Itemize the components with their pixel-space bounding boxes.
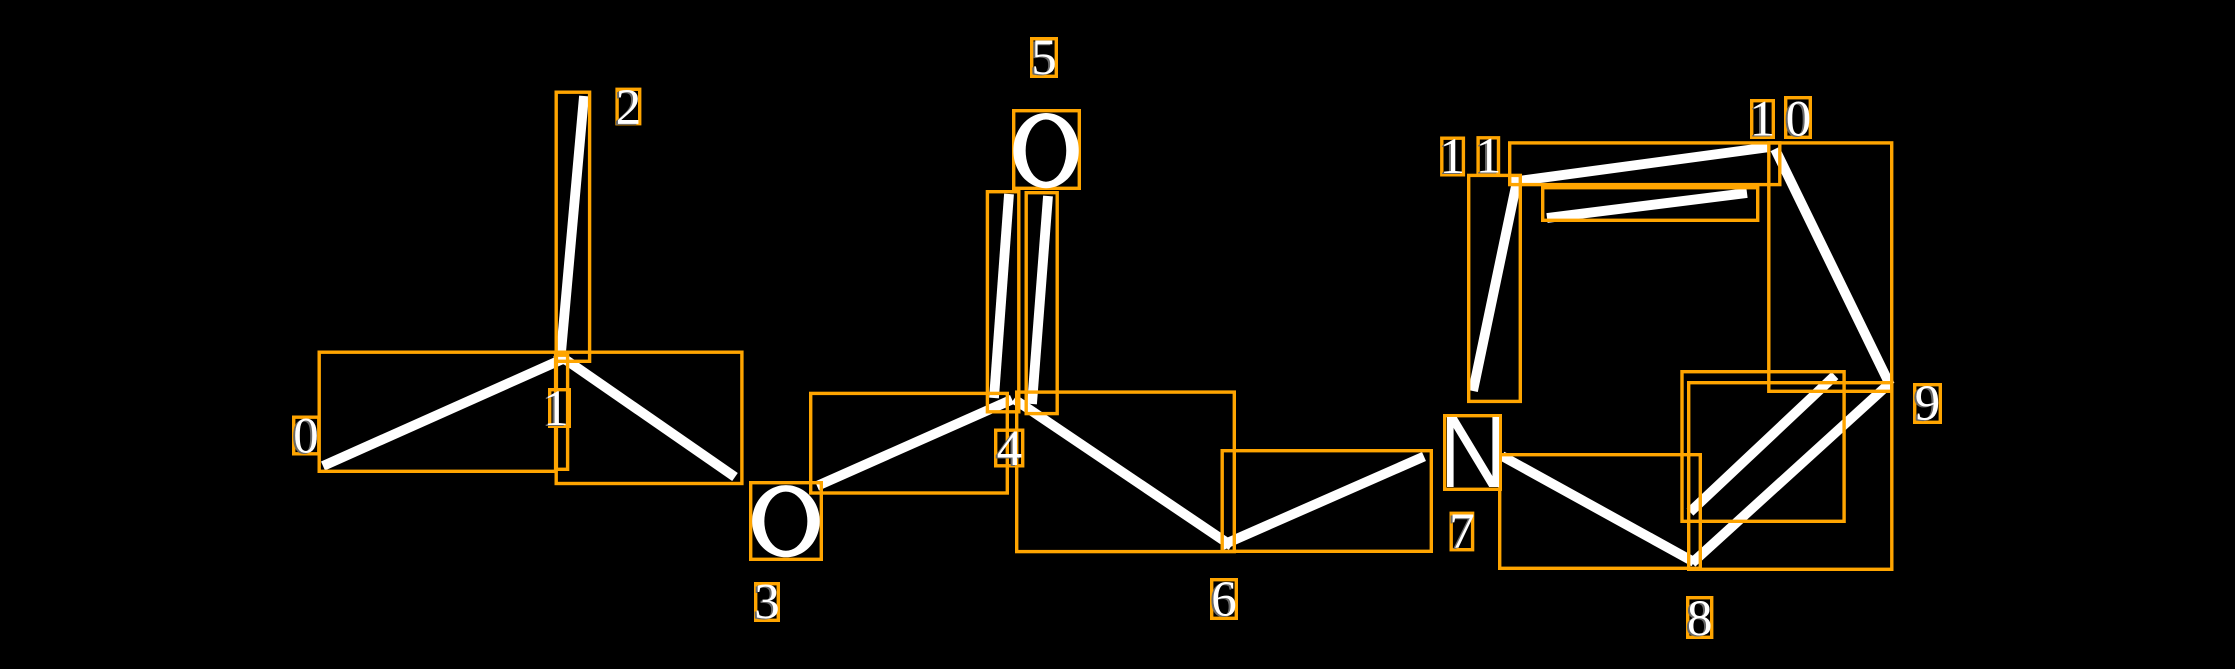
ring bond C4=C5 inner <box>1690 376 1835 513</box>
ring bond C2=C3 inner <box>1547 193 1747 218</box>
bond C-CH3 lower-left (bond 0) <box>323 358 565 466</box>
box O carbonyl letter <box>1014 111 1080 189</box>
box bond C5-N <box>1500 455 1701 569</box>
ring bond C5-N <box>1502 456 1694 562</box>
label 8 <box>1687 591 1713 647</box>
svg-text:1: 1 <box>543 381 569 437</box>
svg-text:1: 1 <box>1750 91 1776 147</box>
svg-text:2: 2 <box>616 80 642 136</box>
box bond 9 <box>1769 143 1892 391</box>
atom N <box>1447 417 1499 487</box>
svg-text:0: 0 <box>1786 91 1812 147</box>
svg-text:0: 0 <box>293 409 319 465</box>
box bond 0 <box>319 352 555 471</box>
box bond 10 main <box>1510 143 1780 185</box>
svg-text:6: 6 <box>1211 572 1237 628</box>
box C=O right <box>1026 193 1057 414</box>
bond O-C carbonyl <box>817 400 1012 487</box>
bond C=O right line <box>1032 196 1048 404</box>
svg-text:3: 3 <box>754 575 780 631</box>
label 11 digit 1 b <box>1476 128 1502 184</box>
bond C=O left line <box>994 194 1009 398</box>
ring bond N-C2 (bond 11) <box>1473 181 1517 391</box>
label 1 <box>543 381 569 437</box>
label 7 <box>1449 504 1475 560</box>
bond C-O ester <box>556 353 735 477</box>
box C=O left <box>987 192 1018 412</box>
box bond O-C <box>811 393 1008 493</box>
box bond 11 <box>1469 175 1521 401</box>
ring bond C2=C3 main (bond 10) <box>1511 147 1770 182</box>
label 0 <box>293 409 319 465</box>
bond C-CH2 (bond 6) <box>1014 399 1232 546</box>
svg-text:7: 7 <box>1449 504 1475 560</box>
labels: orange-outlined digit boxes with white serif digits <box>293 30 1940 647</box>
label 5 <box>1031 30 1057 86</box>
box bond 8 inner <box>1682 372 1844 522</box>
label 10 digit 0 <box>1786 91 1812 147</box>
label 3 <box>754 575 780 631</box>
svg-text:5: 5 <box>1031 30 1057 86</box>
box bond 2 <box>556 92 589 361</box>
label 6 <box>1211 572 1237 628</box>
svg-text:1: 1 <box>1440 129 1466 185</box>
svg-text:1: 1 <box>1476 128 1502 184</box>
box bond C-O <box>556 352 742 483</box>
svg-text:9: 9 <box>1915 376 1941 432</box>
atom O ester <box>752 485 820 557</box>
label 10 digit 1 <box>1750 91 1776 147</box>
box bond 6 <box>1017 392 1235 551</box>
svg-text:4: 4 <box>997 421 1023 477</box>
label 4 <box>996 421 1023 477</box>
label 11 digit 1 a <box>1440 129 1466 185</box>
atom O carbonyl <box>1013 113 1078 188</box>
label 9 <box>1915 376 1941 432</box>
ring bond C3-C4 (bond 9) <box>1775 149 1890 385</box>
svg-text:8: 8 <box>1687 591 1713 647</box>
label 2 <box>616 80 642 136</box>
box O ester letter <box>751 483 822 560</box>
box bond 10 inner <box>1543 188 1758 221</box>
box bond 1 (empty) <box>556 355 567 469</box>
box bond CH2-N <box>1222 451 1431 552</box>
bond C-CH3 up (bond 2) <box>560 96 584 364</box>
box bond 8 main <box>1689 383 1892 570</box>
box N letter <box>1445 416 1501 490</box>
ring bond C4=C5 main (bond 8) <box>1692 383 1890 563</box>
bond CH2-N <box>1222 457 1425 546</box>
